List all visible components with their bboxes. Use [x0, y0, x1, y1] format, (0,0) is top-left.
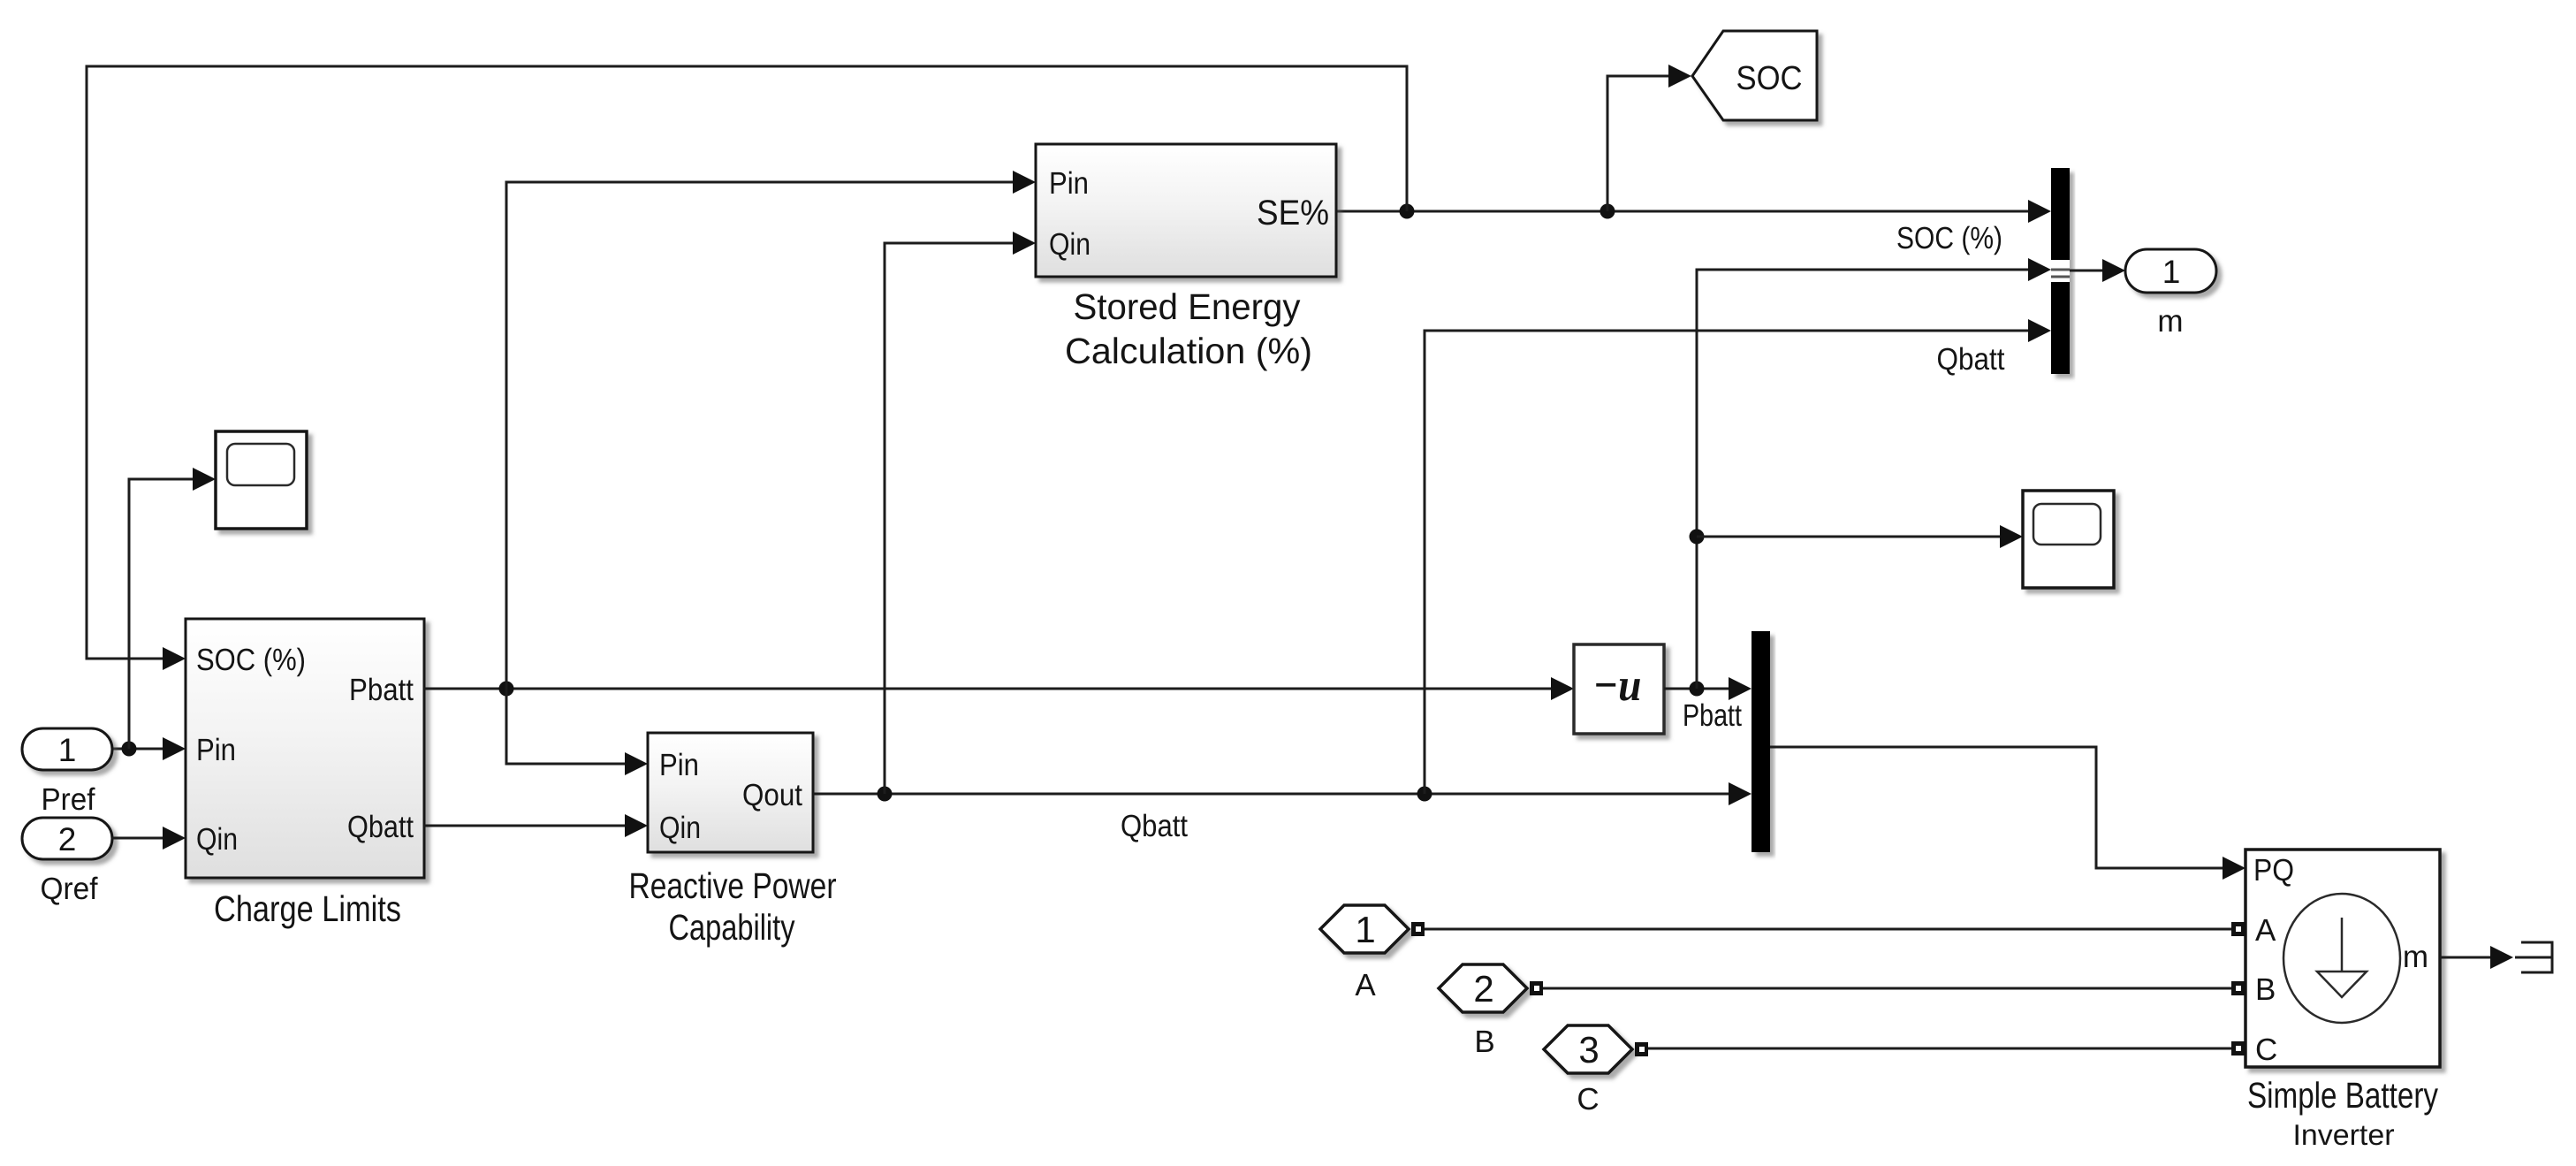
goto tag SOC — [1692, 31, 1817, 120]
node junction on SE% line at x=1819 — [1600, 204, 1615, 219]
node junction Qbatt at x=1612 — [1417, 787, 1432, 802]
wire branch from Pref junction up to scope1 — [129, 468, 216, 749]
connection port tag 1 — [1320, 905, 1409, 953]
svg-text:Pref: Pref — [42, 782, 95, 817]
svg-text:Inverter: Inverter — [2293, 1118, 2395, 1151]
svg-text:2: 2 — [1473, 968, 1493, 1010]
svg-text:SOC: SOC — [1736, 60, 1803, 97]
svg-text:Qin: Qin — [659, 811, 701, 845]
inverter port square C — [2231, 1041, 2245, 1055]
mux2 vertical bar — [1752, 631, 1770, 852]
wire Qref port to Charge Limits Qin — [112, 827, 186, 850]
connection port tag 2 — [1439, 964, 1527, 1012]
svg-text:A: A — [2255, 913, 2276, 948]
scope block (right) — [2023, 491, 2114, 588]
wire Qbatt from Charge Limits to Reactive Power Qin — [424, 814, 648, 837]
connection port tag 3 — [1544, 1025, 1632, 1073]
node junction Qout at x=1001 — [878, 787, 893, 802]
source circle icon inside inverter — [2283, 894, 2400, 1023]
svg-text:1: 1 — [1355, 909, 1375, 950]
gain block -u — [1574, 644, 1664, 734]
block Simple Battery Inverter — [2245, 850, 2440, 1067]
node junction Pbatt at x=573 — [499, 682, 514, 697]
svg-text:m: m — [2157, 304, 2183, 339]
svg-text:Stored Energy: Stored Energy — [1074, 286, 1301, 327]
subsystem Charge Limits — [186, 619, 424, 878]
wire mux2 output to inverter PQ — [1770, 747, 2245, 880]
svg-text:Qbatt: Qbatt — [1121, 809, 1188, 843]
svg-text:m: m — [2403, 940, 2428, 974]
mux1 port marker — [2051, 260, 2070, 282]
svg-text:B: B — [2255, 972, 2276, 1007]
svg-text:Qin: Qin — [1049, 227, 1090, 262]
wire m output to terminator — [2440, 946, 2513, 969]
terminator bracket — [2515, 942, 2552, 972]
label A — [1355, 968, 1376, 1002]
subsystem Stored Energy Calculation — [1036, 144, 1336, 277]
svg-text:Charge Limits: Charge Limits — [214, 888, 401, 929]
svg-text:2: 2 — [58, 821, 77, 857]
port square of tag 1 — [1411, 922, 1425, 936]
inverter port square B — [2231, 981, 2245, 995]
inport 1 Pref — [22, 728, 112, 770]
wire branch Pbatt up to Stored Energy Pin and down to Reactive Power Pin — [506, 171, 1036, 775]
svg-text:1: 1 — [2162, 254, 2181, 290]
block name Simple Battery Inverter — [2247, 1075, 2438, 1151]
svg-text:Calculation (%): Calculation (%) — [1065, 331, 1312, 371]
svg-text:Capability: Capability — [669, 907, 795, 948]
wire branch Qbatt up to mux1 input3 — [1425, 319, 2051, 794]
label Pbatt on wire — [1683, 698, 1742, 733]
svg-text:Qref: Qref — [41, 872, 98, 906]
node junction gain output — [1690, 682, 1705, 697]
mux1 vertical bar — [2051, 168, 2070, 374]
svg-text:B: B — [1474, 1025, 1494, 1059]
wire branch from gain output up to mux1 input2 — [1697, 258, 2051, 689]
inport 2 Qref — [22, 818, 112, 859]
subsystem Reactive Power Capability — [648, 733, 813, 852]
wire gain output to mux2 input1 — [1664, 677, 1752, 700]
port square of tag 2 — [1530, 981, 1543, 995]
wire branch from SE% line up to SOC goto tag — [1607, 65, 1691, 211]
wire feedback from SE% junction up, left and down to Charge Limits SOC input — [87, 66, 1407, 670]
node junction at scope2 branch — [1690, 530, 1705, 545]
svg-text:C: C — [2255, 1033, 2277, 1067]
label Qbatt at mux1 — [1937, 342, 2005, 377]
label Qbatt on wire — [1121, 809, 1188, 843]
svg-text:Simple Battery: Simple Battery — [2247, 1075, 2438, 1116]
svg-text:Pbatt: Pbatt — [349, 673, 414, 707]
svg-text:Pin: Pin — [1049, 166, 1089, 201]
svg-text:Qbatt: Qbatt — [1937, 342, 2005, 377]
svg-text:Qbatt: Qbatt — [347, 810, 414, 844]
svg-text:3: 3 — [1578, 1029, 1599, 1071]
inverter port square A — [2231, 922, 2245, 936]
svg-text:Pin: Pin — [196, 733, 236, 767]
svg-text:Pbatt: Pbatt — [1683, 698, 1742, 733]
port square of tag 3 — [1635, 1042, 1648, 1056]
wire branch Qout up to Stored Energy Qin — [885, 232, 1036, 794]
label B — [1474, 1025, 1494, 1059]
wire Qout from Reactive Power to mux2 input2 — [813, 782, 1752, 805]
node junction on Pref line — [122, 742, 137, 757]
wire A to inverter — [1425, 928, 2231, 931]
svg-text:Qout: Qout — [742, 778, 802, 812]
wire mux1 output to outport m — [2070, 259, 2125, 282]
svg-text:C: C — [1577, 1082, 1599, 1116]
svg-text:Pin: Pin — [659, 748, 699, 782]
wire Pref port to Charge Limits Pin — [112, 737, 186, 760]
label C — [1577, 1082, 1599, 1116]
outport 1 m — [2125, 249, 2216, 293]
svg-text:−u: −u — [1593, 660, 1642, 711]
svg-text:A: A — [1355, 968, 1376, 1002]
wire C to inverter — [1648, 1048, 2231, 1050]
svg-text:SOC (%): SOC (%) — [196, 643, 306, 677]
wire SE% output to mux1 input1 — [1336, 200, 2051, 223]
label SOC (%) at mux1 — [1896, 221, 2002, 255]
svg-text:SOC (%): SOC (%) — [1896, 221, 2002, 255]
svg-text:1: 1 — [58, 732, 77, 768]
wire branch to scope2 — [1697, 525, 2023, 548]
wire B to inverter — [1543, 987, 2231, 990]
scope block (top left) — [216, 431, 307, 529]
svg-text:SE%: SE% — [1257, 194, 1329, 232]
wire Pbatt from Charge Limits to gain -u — [424, 677, 1574, 700]
svg-text:Qin: Qin — [196, 822, 238, 857]
node junction on SE% line at x=1592 — [1400, 204, 1415, 219]
svg-text:Reactive Power: Reactive Power — [629, 865, 837, 906]
svg-text:PQ: PQ — [2253, 853, 2294, 888]
